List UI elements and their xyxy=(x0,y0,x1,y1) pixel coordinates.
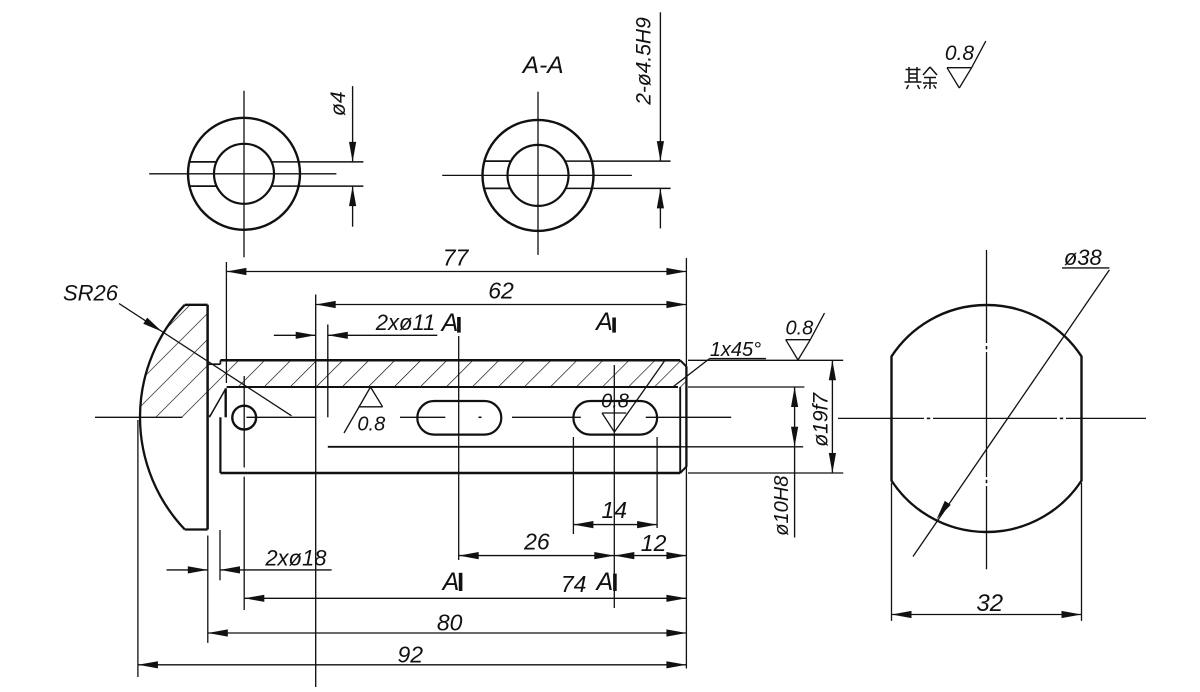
svg-text:A-A: A-A xyxy=(521,52,564,79)
svg-text:0.8: 0.8 xyxy=(357,414,385,436)
svg-text:2xø11: 2xø11 xyxy=(375,310,436,335)
svg-text:ø4: ø4 xyxy=(327,91,350,116)
svg-text:SR26: SR26 xyxy=(63,281,119,306)
svg-text:80: 80 xyxy=(437,610,463,636)
svg-text:ø10H8: ø10H8 xyxy=(771,476,793,536)
svg-text:ø38: ø38 xyxy=(1064,245,1103,270)
svg-text:2xø18: 2xø18 xyxy=(264,546,327,571)
svg-text:62: 62 xyxy=(488,277,514,303)
svg-text:74: 74 xyxy=(561,571,587,597)
svg-text:26: 26 xyxy=(523,529,550,555)
svg-text:14: 14 xyxy=(602,497,628,523)
svg-text:A: A xyxy=(441,568,460,596)
svg-text:0.8: 0.8 xyxy=(601,391,629,413)
svg-text:A: A xyxy=(594,308,613,336)
svg-text:12: 12 xyxy=(641,530,667,556)
svg-text:ø19f7: ø19f7 xyxy=(810,392,833,447)
svg-text:77: 77 xyxy=(443,244,470,270)
svg-text:A: A xyxy=(440,309,459,337)
svg-text:0.8: 0.8 xyxy=(945,42,975,65)
svg-text:1x45°: 1x45° xyxy=(710,339,761,361)
svg-text:92: 92 xyxy=(398,642,424,668)
svg-text:2-ø4.5H9: 2-ø4.5H9 xyxy=(633,17,656,106)
svg-text:32: 32 xyxy=(976,590,1003,617)
svg-text:A: A xyxy=(594,568,613,596)
svg-text:0.8: 0.8 xyxy=(785,318,813,340)
